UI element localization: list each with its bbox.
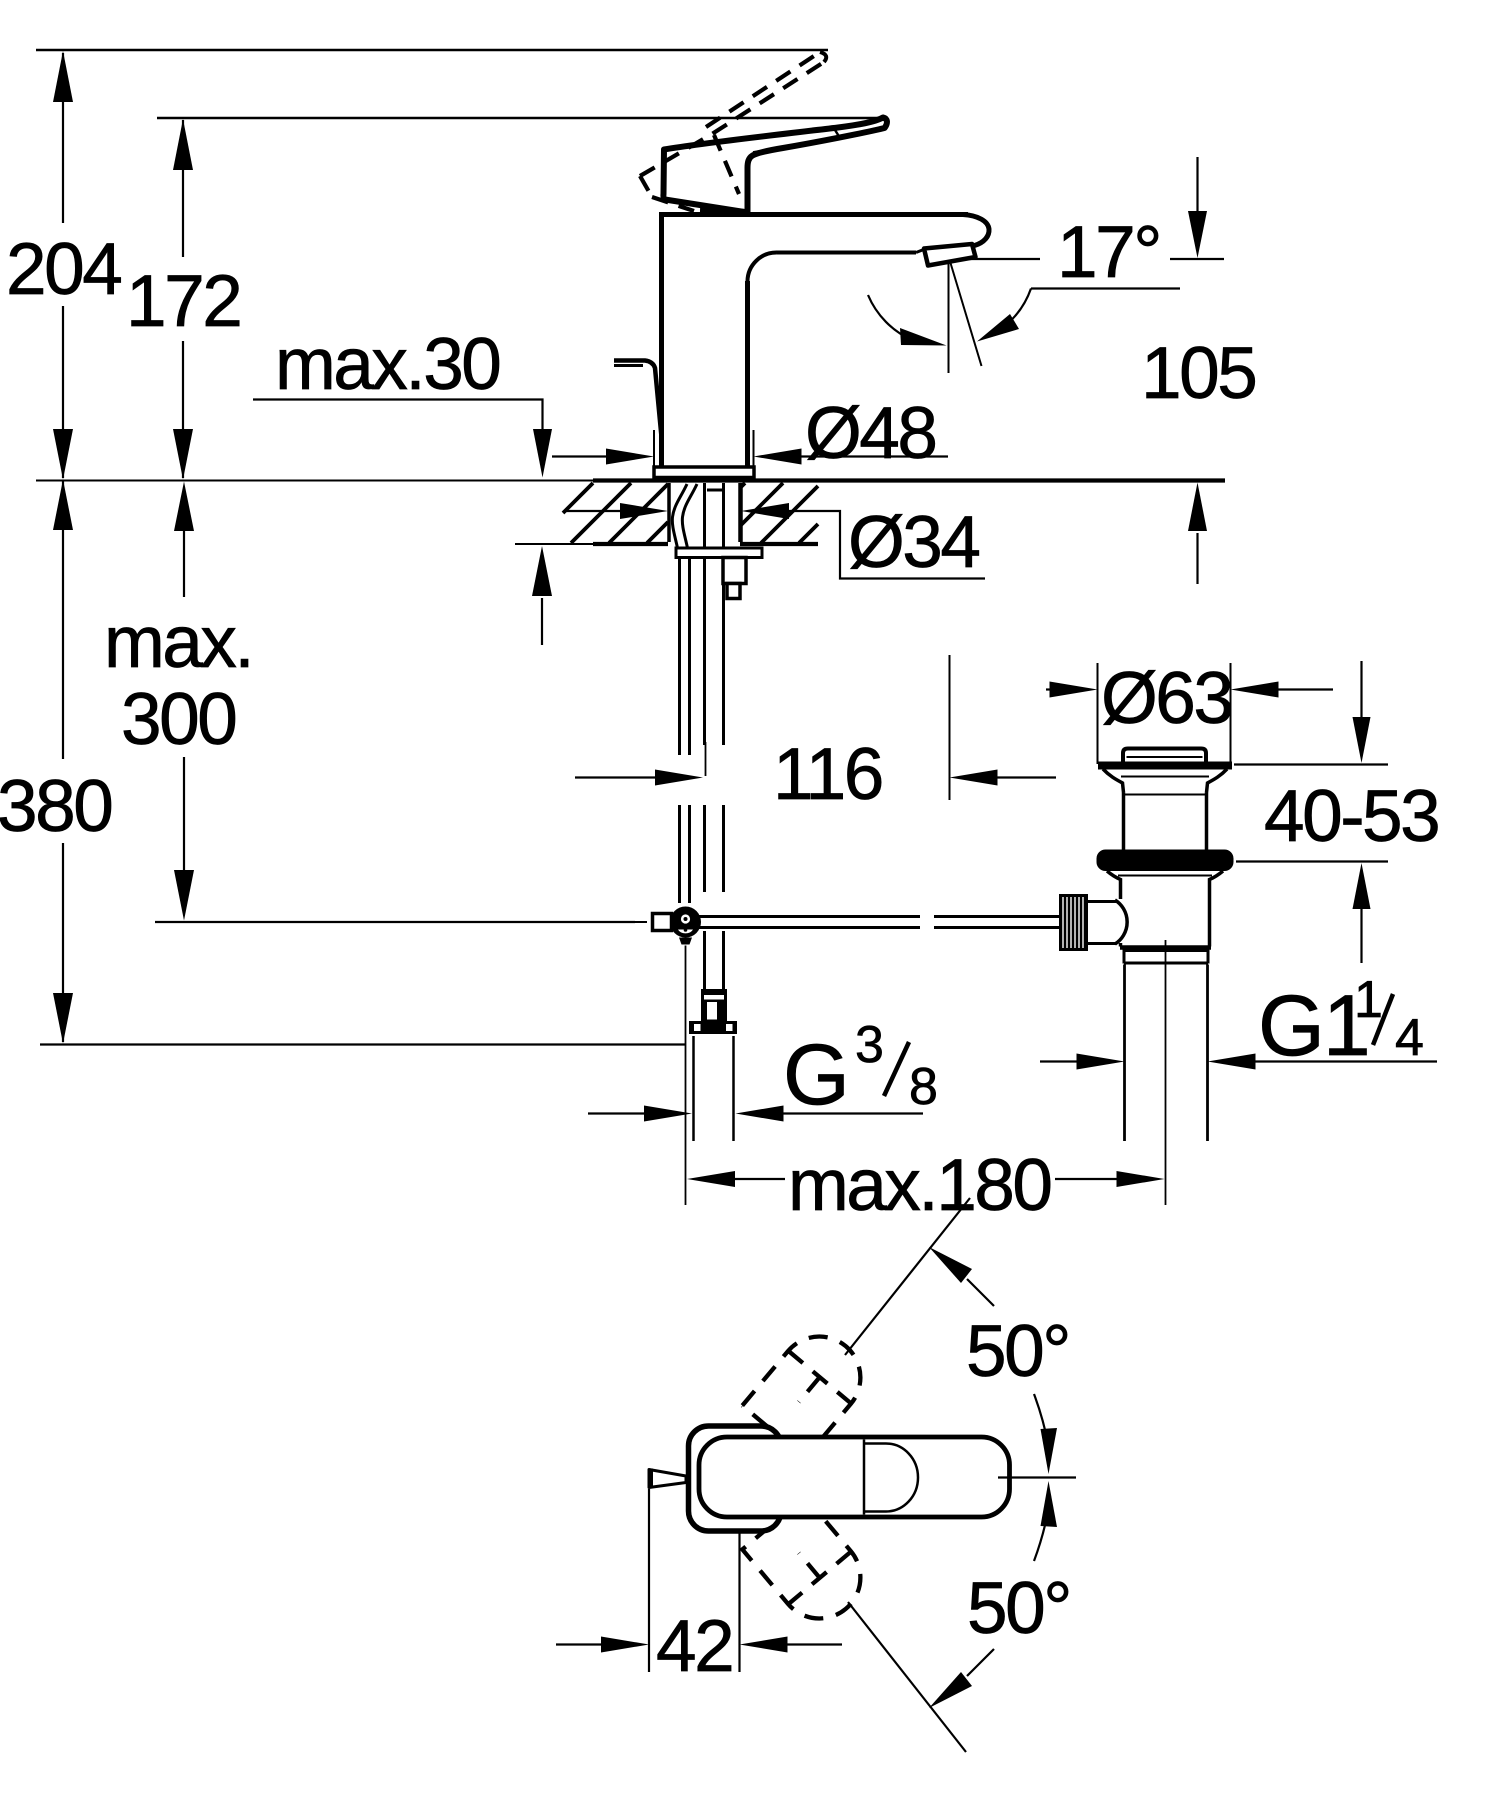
plan grip inner cap bbox=[864, 1444, 918, 1512]
rod end cap bbox=[653, 914, 672, 931]
lever blade tick bbox=[835, 130, 840, 138]
dimension G1 1/4 arrow right bbox=[1208, 1054, 1256, 1070]
dimension O48 arrow left bbox=[606, 449, 654, 465]
plan handle blade bbox=[699, 1437, 1010, 1517]
svg-text:42: 42 bbox=[656, 1606, 732, 1687]
dimension 172 arrow up bbox=[173, 119, 193, 170]
aerator link line bbox=[916, 249, 925, 253]
dimension 380 line bbox=[62, 481, 64, 759]
angle 17 left arc bbox=[868, 295, 912, 340]
dimension 40-53 arrow down bbox=[1353, 717, 1371, 763]
drain valve bulge bbox=[1115, 900, 1127, 944]
countertop underside left bbox=[593, 542, 668, 546]
countertop underside right bbox=[740, 542, 818, 546]
hose B segment 2 bbox=[688, 805, 691, 903]
dimension O48 ext right bbox=[753, 430, 755, 472]
dimension 40-53 top arrow line bbox=[1360, 661, 1362, 720]
body top line and spout bbox=[659, 212, 968, 217]
svg-text:G1: G1 bbox=[1258, 978, 1369, 1074]
dimension max.300 arrow down bbox=[174, 870, 194, 921]
plan pop-up pin bbox=[649, 1470, 686, 1488]
aerator bbox=[924, 244, 976, 266]
svg-text:max.180: max.180 bbox=[788, 1145, 1051, 1226]
pop-up rod thin segment bbox=[705, 742, 707, 776]
dimension 116 line right bbox=[998, 776, 1057, 778]
drain tailpipe right bbox=[1206, 965, 1209, 1142]
drain tailpipe left bbox=[1123, 965, 1126, 1142]
hose A segment 2 bbox=[678, 805, 681, 903]
drain neck left bbox=[1103, 769, 1124, 793]
dimension 172 arrow down bbox=[173, 429, 193, 480]
angle arc upper arrowhead bbox=[1041, 1428, 1058, 1474]
dimension max.30 lower arrow (under counter) bbox=[541, 598, 543, 645]
dimension 105 arrow line down bbox=[1196, 157, 1198, 213]
angle 17 right arc bbox=[1005, 289, 1031, 327]
hose B lower run bbox=[688, 558, 691, 756]
dimension O48 arrow right bbox=[754, 449, 802, 465]
svg-text:3: 3 bbox=[855, 1016, 883, 1074]
plan knuckle bbox=[689, 1426, 782, 1531]
hatch left block bbox=[563, 483, 668, 543]
aerator centerline bbox=[949, 655, 951, 800]
dimension 40-53 bottom arrow line bbox=[1360, 908, 1362, 963]
dimension 105 arrow up bbox=[1188, 483, 1207, 532]
drain tube joint line bbox=[1125, 794, 1205, 796]
sector ray lower bbox=[848, 1602, 966, 1752]
dimension 42 line right bbox=[788, 1643, 843, 1645]
svg-text:116: 116 bbox=[773, 734, 882, 815]
dimension max.30 leader bbox=[253, 400, 543, 433]
dimension 40-53 ext top bbox=[1234, 763, 1388, 765]
faucet base plate bbox=[654, 467, 754, 478]
drain plug cap inner line bbox=[1127, 756, 1203, 758]
dimension max.180 arrow left bbox=[687, 1171, 735, 1187]
dimension G 3/8 arrow left bbox=[644, 1106, 692, 1122]
dimension 42 line left bbox=[556, 1643, 603, 1645]
lower 50 leader bbox=[967, 1649, 994, 1676]
svg-text:50°: 50° bbox=[966, 1311, 1069, 1392]
flexible hose curve in hole B bbox=[682, 484, 697, 548]
svg-text:40-53: 40-53 bbox=[1264, 776, 1438, 857]
dimension 42 arrow right bbox=[740, 1637, 788, 1653]
drain centerline bbox=[1165, 940, 1167, 1205]
angle arc lower bbox=[1034, 1510, 1048, 1561]
angle 17 right arrowhead bbox=[977, 314, 1019, 342]
dimension 42 ext right bbox=[738, 1532, 740, 1672]
G3/8 fitting collar bbox=[689, 1021, 737, 1034]
aerator level line left bbox=[961, 258, 1040, 260]
hole left edge bbox=[667, 483, 671, 542]
dashed handle rotated down bbox=[742, 1497, 877, 1636]
drain slip ring bbox=[1124, 951, 1208, 964]
G3/8 fitting block bbox=[701, 989, 727, 1021]
shank below rod left bbox=[703, 931, 706, 991]
dimension O63 ext right bbox=[1230, 663, 1232, 764]
dimension 116 arrow left bbox=[655, 770, 703, 786]
drain upper tube left bbox=[1122, 793, 1126, 851]
angle vertical reference bbox=[948, 262, 950, 373]
svg-text:max.30: max.30 bbox=[275, 324, 499, 405]
dimension O34 line left bbox=[566, 510, 622, 512]
dimension 116 line left bbox=[575, 776, 657, 778]
drain body bottom line bbox=[1120, 945, 1211, 950]
rod centerline dashes bbox=[617, 921, 647, 923]
dimension max.300 line bbox=[183, 530, 185, 597]
dimension max.300 arrow up bbox=[174, 482, 194, 532]
G3/8 tube right bbox=[732, 1036, 735, 1141]
dimension 380 arrow down bbox=[53, 993, 73, 1044]
lever base shadow bbox=[700, 211, 746, 213]
drain neck right bbox=[1207, 769, 1228, 793]
plan centerline bbox=[998, 1476, 1076, 1478]
spout underside corner bbox=[748, 252, 778, 281]
dimension 42 arrow left bbox=[601, 1637, 649, 1653]
drain side knob bbox=[1059, 894, 1088, 951]
dimension 40-53 arrow up bbox=[1353, 863, 1371, 909]
ball clamp bbox=[679, 938, 692, 945]
upper 50 leader bbox=[967, 1279, 994, 1306]
dimension O63 line left bbox=[1046, 688, 1051, 690]
drain lower body left bbox=[1107, 871, 1121, 899]
drain knob stem top bbox=[1088, 900, 1116, 903]
washer plate bbox=[676, 548, 762, 558]
drain lower shoulder line bbox=[1118, 875, 1212, 877]
dimension G 3/8 line left bbox=[588, 1112, 648, 1114]
lever blade inner line bbox=[753, 132, 872, 153]
dashed raised lever tip cap bbox=[820, 52, 826, 62]
dashed rotated knuckle left edge bbox=[640, 176, 652, 197]
dimension O63 arrow left bbox=[1050, 682, 1098, 698]
svg-text:380: 380 bbox=[0, 766, 111, 847]
flexible hose curve in hole A bbox=[672, 484, 687, 548]
dimension max.180 line left bbox=[735, 1178, 785, 1180]
dimension O48 line right bbox=[802, 455, 949, 457]
horizontal pop-up lever left top bbox=[656, 915, 920, 918]
shank right segment 2 bbox=[722, 805, 725, 892]
mounting nut step 2 bbox=[727, 584, 740, 599]
dimension G1 1/4 line left bbox=[1040, 1060, 1078, 1062]
dimension O34 arrow right bbox=[741, 503, 789, 519]
faucet centerline lower bbox=[685, 946, 687, 1206]
svg-text:8: 8 bbox=[909, 1058, 937, 1116]
sector ray upper bbox=[845, 1198, 970, 1355]
svg-text:max.: max. bbox=[104, 602, 252, 683]
dimension 42 ext left bbox=[648, 1489, 650, 1672]
body left edge bbox=[659, 213, 664, 467]
svg-text:4: 4 bbox=[1395, 1009, 1423, 1067]
dimension O63 line right bbox=[1279, 688, 1334, 690]
svg-text:105: 105 bbox=[1141, 333, 1255, 414]
dimension 105 arrow line up bbox=[1196, 533, 1198, 584]
angle 17 left arrowhead bbox=[900, 328, 947, 346]
aerator level line right bbox=[1170, 258, 1224, 260]
drain lower body right bbox=[1210, 871, 1224, 947]
dimension O34 leader bbox=[789, 511, 985, 579]
drain knob stem bottom bbox=[1088, 942, 1116, 945]
dimension O48 line left bbox=[552, 455, 608, 457]
horizontal pop-up lever left bottom bbox=[656, 926, 920, 929]
dimension G 3/8 line right bbox=[784, 1112, 924, 1114]
pop-up pull rod hook bbox=[614, 361, 662, 438]
drain neck shoulder line bbox=[1121, 776, 1209, 778]
angle slanted line bbox=[951, 263, 982, 366]
svg-text:300: 300 bbox=[121, 679, 235, 760]
dashed handle rotated up bbox=[742, 1320, 877, 1459]
svg-text:204: 204 bbox=[6, 229, 121, 310]
mounting nut step 1 bbox=[723, 558, 746, 584]
countertop top surface thick line bbox=[593, 478, 1225, 482]
svg-text:Ø63: Ø63 bbox=[1101, 658, 1231, 739]
shank below rod right bbox=[722, 931, 725, 991]
dimension O34 arrow left bbox=[620, 503, 668, 519]
spout underside line bbox=[777, 251, 916, 255]
dimension 116 arrow right bbox=[950, 770, 998, 786]
dimension 105 arrow down bbox=[1188, 211, 1207, 258]
dimension 204 line bbox=[62, 53, 64, 223]
shank tube right line bbox=[722, 483, 725, 745]
dimension 380 bottom extension line bbox=[40, 1043, 686, 1045]
svg-text:1: 1 bbox=[1354, 971, 1382, 1029]
dashed rotated knuckle bottom edge bbox=[652, 197, 694, 211]
countertop underside thin extension bbox=[515, 543, 593, 545]
dimension 40-53 ext bottom bbox=[1236, 860, 1388, 862]
svg-text:Ø34: Ø34 bbox=[848, 502, 979, 583]
drain seal ring bbox=[1097, 850, 1234, 872]
angle arc upper bbox=[1034, 1394, 1048, 1445]
dimension O63 ext left bbox=[1097, 663, 1099, 764]
drain flange bbox=[1098, 762, 1232, 770]
dimension O63 arrow right bbox=[1231, 682, 1279, 698]
extension line lever top (172 level) bbox=[157, 117, 883, 120]
drain plug cap bbox=[1123, 749, 1206, 764]
dimension max.180 arrow right bbox=[1117, 1171, 1165, 1187]
hole right edge bbox=[738, 483, 743, 542]
G3/8 tube left bbox=[692, 1036, 695, 1141]
horizontal pop-up lever right bottom bbox=[934, 926, 1059, 929]
dashed raised lever blade lower edge bbox=[640, 62, 824, 176]
shank tube left line bbox=[703, 483, 706, 745]
shank left segment 2 bbox=[703, 805, 706, 892]
pop-up pull rod hook lower line bbox=[614, 364, 643, 367]
drain upper tube right bbox=[1205, 793, 1209, 851]
dimension 172 line bbox=[182, 120, 184, 257]
dimension O48 ext left bbox=[653, 430, 655, 472]
hose A lower run bbox=[678, 558, 681, 756]
hatch right block bbox=[741, 483, 819, 543]
angle arc lower arrowhead bbox=[1041, 1481, 1058, 1527]
plan blade divider bbox=[863, 1440, 866, 1515]
spout nose bbox=[963, 215, 989, 246]
dashed rotated knuckle right edge bbox=[714, 135, 739, 194]
lower 50 arrowhead bbox=[929, 1672, 972, 1708]
extension line top (204 level) bbox=[36, 49, 828, 52]
dimension max.300 bottom extension (ball level) bbox=[155, 921, 635, 923]
upper 50 arrowhead bbox=[929, 1247, 972, 1283]
dimension 204 arrow up bbox=[53, 51, 73, 102]
dimension G 3/8 arrow right bbox=[736, 1106, 784, 1122]
svg-text:G: G bbox=[783, 1027, 848, 1123]
shank inner top line bbox=[707, 489, 722, 492]
dimension 204 arrow down bbox=[53, 429, 73, 480]
horizontal pop-up lever right top bbox=[934, 915, 1059, 918]
angle 17 leader shelf bbox=[1031, 287, 1180, 289]
dimension G1 1/4 line right bbox=[1256, 1060, 1438, 1062]
countertop top surface thin extension bbox=[36, 480, 593, 482]
svg-text:50°: 50° bbox=[967, 1568, 1070, 1649]
ball joint bbox=[670, 907, 701, 938]
dimension 380 arrow up bbox=[53, 480, 73, 531]
solid lever handle bbox=[663, 118, 887, 213]
svg-text:172: 172 bbox=[126, 261, 240, 342]
svg-text:Ø48: Ø48 bbox=[805, 393, 935, 474]
dashed raised lever blade upper edge bbox=[706, 52, 820, 127]
dimension G1 1/4 arrow left bbox=[1077, 1054, 1125, 1070]
svg-text:17°: 17° bbox=[1057, 212, 1160, 293]
dimension max.180 line right bbox=[1055, 1178, 1118, 1180]
drain lower body left lower bbox=[1119, 943, 1123, 947]
dimension max.30 arrow bbox=[533, 429, 552, 478]
body right edge bbox=[745, 281, 750, 467]
